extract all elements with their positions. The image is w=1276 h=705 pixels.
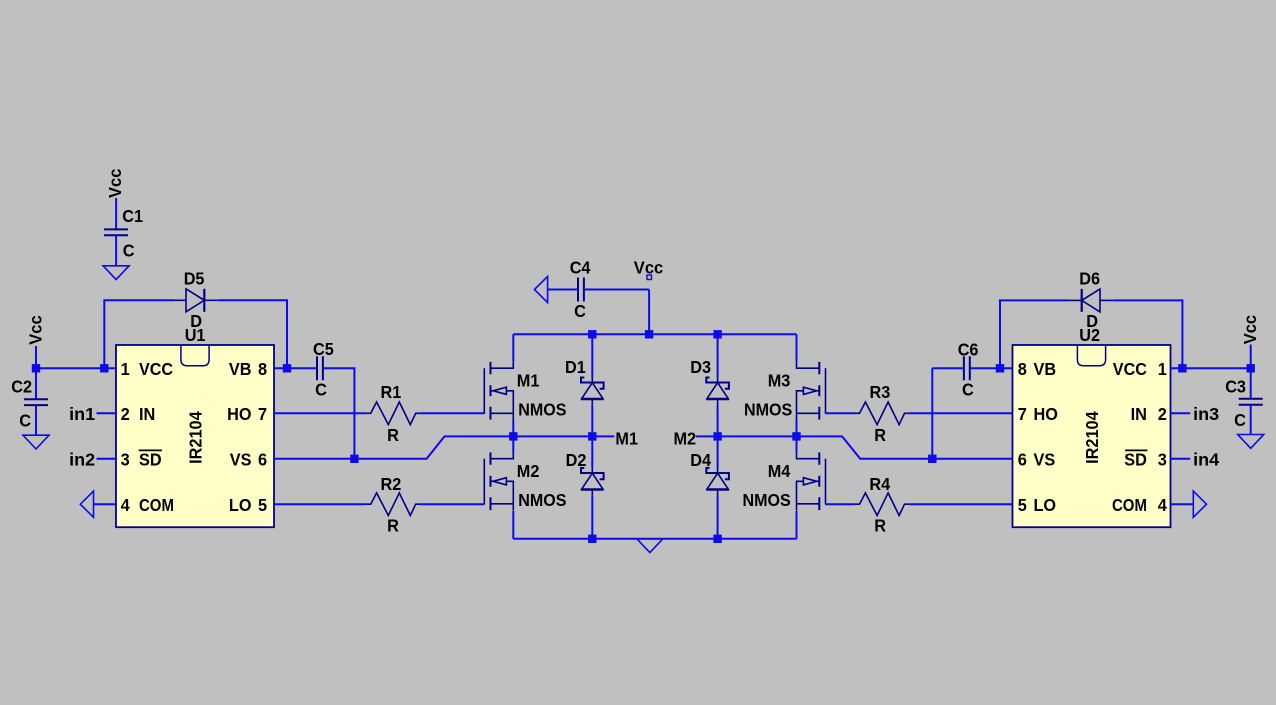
svg-text:D6: D6 <box>1079 268 1100 288</box>
svg-text:COM: COM <box>1112 495 1147 515</box>
wire D6 cathode branch <box>1000 300 1068 368</box>
svg-text:C: C <box>962 379 974 399</box>
svg-text:8: 8 <box>258 359 267 379</box>
svg-text:SD: SD <box>1124 450 1147 470</box>
transistor M2 <box>484 452 513 510</box>
port arrow COM (right) <box>1193 491 1206 517</box>
wire LO to R2 <box>274 503 366 505</box>
junction Vcc/C2 node <box>32 364 40 372</box>
svg-text:C: C <box>19 411 31 431</box>
svg-text:M3: M3 <box>768 371 791 391</box>
svg-text:R2: R2 <box>381 474 402 494</box>
diode D5 <box>173 289 218 312</box>
svg-text:C3: C3 <box>1225 377 1246 397</box>
port arrow (C4) <box>534 276 547 302</box>
svg-text:COM: COM <box>139 495 174 515</box>
svg-text:7: 7 <box>258 404 267 424</box>
wire R2 to M2 gate <box>420 503 484 505</box>
wire D1 top <box>591 334 593 377</box>
svg-text:C1: C1 <box>122 206 143 226</box>
wire M2 source <box>512 511 514 539</box>
svg-text:4: 4 <box>1158 495 1167 515</box>
svg-text:2: 2 <box>121 404 130 424</box>
wire Vcc rail to U1 pin 1 <box>36 367 116 369</box>
svg-text:3: 3 <box>121 450 130 470</box>
wire C4 to Vcc drop <box>584 289 649 291</box>
svg-text:D5: D5 <box>184 268 205 288</box>
wire C6 left <box>932 367 964 369</box>
svg-text:NMOS: NMOS <box>518 490 566 510</box>
svg-text:R: R <box>387 425 399 445</box>
ground (bridge) <box>637 539 663 553</box>
wire M3 source <box>796 420 798 436</box>
wire D4 bottom <box>717 495 719 538</box>
wire M1 drain <box>512 334 514 361</box>
svg-text:IR2104: IR2104 <box>186 411 206 464</box>
svg-text:Vcc: Vcc <box>634 257 664 277</box>
diode D4 (zener) <box>706 468 729 495</box>
wire M2 drain <box>512 436 514 452</box>
svg-text:C6: C6 <box>958 340 979 360</box>
wire C1 to ground <box>115 235 117 265</box>
junction top rail D3 <box>713 330 721 338</box>
svg-text:8: 8 <box>1018 359 1027 379</box>
wire M3 drain <box>796 334 798 361</box>
wire in1 stub <box>97 412 117 414</box>
svg-text:IN: IN <box>1131 404 1147 424</box>
svg-text:1: 1 <box>121 359 130 379</box>
wire COM stub left <box>94 503 117 505</box>
svg-text:R: R <box>387 516 399 536</box>
wire bottom rail <box>513 538 796 540</box>
svg-text:6: 6 <box>1018 450 1027 470</box>
resistor R2 <box>366 493 420 516</box>
wire U2 pin1 to Vcc <box>1171 367 1251 369</box>
svg-text:R1: R1 <box>381 382 402 402</box>
SD overline U1 <box>139 449 162 451</box>
svg-text:3: 3 <box>1158 450 1167 470</box>
svg-text:NMOS: NMOS <box>743 490 791 510</box>
svg-text:VS: VS <box>230 450 252 470</box>
svg-text:NMOS: NMOS <box>518 400 566 420</box>
svg-text:VCC: VCC <box>1113 359 1147 379</box>
svg-text:VS: VS <box>1034 450 1056 470</box>
wire mid rail right <box>696 436 1013 458</box>
wire D5 anode branch <box>104 300 173 368</box>
junction mid-rail M1 node (D2 top) <box>588 432 596 440</box>
wire C2 to ground <box>35 405 37 435</box>
wire M4 drain <box>796 436 798 452</box>
wire Vcc drop <box>648 290 650 335</box>
capacitor C6 <box>964 356 970 380</box>
svg-text:2: 2 <box>1158 404 1167 424</box>
svg-text:1: 1 <box>1158 359 1167 379</box>
svg-text:6: 6 <box>258 450 267 470</box>
wire COM stub right <box>1171 503 1194 505</box>
svg-text:IN: IN <box>139 404 155 424</box>
junction top rail Vcc <box>645 330 653 338</box>
svg-text:C: C <box>574 301 586 321</box>
svg-text:C: C <box>315 379 327 399</box>
wire D1 bottom <box>591 405 593 437</box>
svg-text:R3: R3 <box>870 382 891 402</box>
junction D6/VCC node <box>1178 364 1186 372</box>
junction VB/D6/C6 node <box>996 364 1004 372</box>
svg-text:VB: VB <box>229 359 252 379</box>
svg-text:U1: U1 <box>185 325 206 345</box>
transistor M1 <box>484 362 513 420</box>
ground (C1) <box>103 266 129 280</box>
wire M4 gate to R4 <box>825 503 855 505</box>
svg-text:M2: M2 <box>674 429 697 449</box>
junction mid-rail M2 node (D4) <box>713 432 721 440</box>
op-amp U2 IR2104 body <box>1013 345 1171 527</box>
svg-text:Vcc: Vcc <box>25 315 45 345</box>
diode D1 (zener) <box>581 378 604 405</box>
svg-text:5: 5 <box>1018 495 1027 515</box>
junction mid-rail M2 node (M3 src) <box>792 432 800 440</box>
svg-text:M4: M4 <box>768 461 791 481</box>
svg-text:NMOS: NMOS <box>744 400 792 420</box>
diode D2 (zener) <box>581 468 604 495</box>
svg-text:C2: C2 <box>11 377 32 397</box>
port arrow COM (left) <box>80 491 93 517</box>
svg-text:Vcc: Vcc <box>1240 315 1260 345</box>
junction top rail D1 <box>588 330 596 338</box>
wire VB to C5 <box>274 367 317 369</box>
svg-text:in1: in1 <box>69 404 95 424</box>
wire top rail <box>513 333 796 335</box>
svg-text:Vcc: Vcc <box>105 168 125 198</box>
wire in4 stub <box>1171 458 1191 460</box>
junction bottom rail D4 <box>713 535 721 543</box>
ground (C3) <box>1238 435 1264 449</box>
svg-text:M1: M1 <box>517 371 540 391</box>
junction Vcc/C3 node <box>1247 364 1255 372</box>
wire M3 gate to R3 <box>825 412 855 414</box>
node marker Vcc <box>647 275 652 280</box>
svg-text:U2: U2 <box>1079 325 1100 345</box>
wire D6 anode to VCC node <box>1113 300 1182 368</box>
resistor R4 <box>855 493 909 516</box>
svg-text:M1: M1 <box>615 429 638 449</box>
svg-text:4: 4 <box>121 495 130 515</box>
junction mid-rail M1 node (M1 src) <box>509 432 517 440</box>
capacitor C2 <box>24 399 48 405</box>
svg-text:C4: C4 <box>570 258 591 278</box>
svg-text:R4: R4 <box>869 474 890 494</box>
wire D4 top <box>717 436 719 468</box>
wire M1 source <box>512 420 514 436</box>
wire HO to R1 <box>274 412 366 414</box>
wire in3 stub <box>1171 412 1191 414</box>
svg-text:C: C <box>123 241 135 261</box>
capacitor C1 <box>104 229 128 235</box>
wire Vcc stub left <box>35 346 37 368</box>
wire C6 to U2 VB <box>970 367 1013 369</box>
transistor M3 <box>797 362 826 420</box>
svg-text:LO: LO <box>229 495 252 515</box>
wire D2 bottom <box>591 495 593 538</box>
wire C5 to VS <box>323 368 355 459</box>
capacitor C4 <box>578 278 584 302</box>
capacitor C5 <box>317 356 323 380</box>
svg-text:IR2104: IR2104 <box>1082 411 1102 464</box>
svg-text:LO: LO <box>1034 495 1057 515</box>
ground (C2) <box>23 435 49 449</box>
svg-text:R: R <box>874 516 886 536</box>
svg-text:VB: VB <box>1034 359 1057 379</box>
wire D2 top <box>591 436 593 468</box>
transistor M4 <box>797 452 826 510</box>
svg-text:C: C <box>1234 410 1246 430</box>
svg-text:C5: C5 <box>313 339 334 359</box>
wire R3 to U2 HO <box>909 412 1012 414</box>
svg-text:5: 5 <box>258 495 267 515</box>
svg-text:VCC: VCC <box>139 359 173 379</box>
svg-text:7: 7 <box>1018 404 1027 424</box>
wire C3 top <box>1250 368 1252 399</box>
wire R1 to M1 gate <box>420 412 484 414</box>
svg-text:in4: in4 <box>1193 450 1219 470</box>
junction D5 anode branch <box>100 364 108 372</box>
wire VS run left <box>274 436 614 458</box>
wire Vcc stub right <box>1250 345 1252 369</box>
wire C4 left to port <box>548 289 578 291</box>
capacitor C3 <box>1239 399 1263 405</box>
junction VB/D5/C5 node <box>283 364 291 372</box>
svg-text:D1: D1 <box>565 357 586 377</box>
svg-text:D4: D4 <box>690 450 711 470</box>
wire R4 to U2 LO <box>909 503 1012 505</box>
resistor R1 <box>366 402 420 425</box>
junction VS/C6 node <box>928 455 936 463</box>
junction VS/C5 node <box>350 455 358 463</box>
svg-text:SD: SD <box>139 450 162 470</box>
wire D3 top <box>717 334 719 377</box>
SD overline U2 <box>1125 449 1147 451</box>
svg-text:in3: in3 <box>1193 404 1219 424</box>
svg-text:D2: D2 <box>566 450 587 470</box>
svg-text:HO: HO <box>227 404 251 424</box>
svg-text:R: R <box>874 425 886 445</box>
wire C3 to ground <box>1250 405 1252 435</box>
wire D3 bottom <box>717 405 719 437</box>
diode D3 (zener) <box>706 378 729 405</box>
wire C6 corner to VS <box>931 368 933 459</box>
diode D6 <box>1068 289 1113 312</box>
wire Vcc to C1 <box>115 198 117 229</box>
wire M4 source <box>796 511 798 539</box>
junction bottom rail D2 <box>588 535 596 543</box>
wire in2 stub <box>97 458 117 460</box>
wire C2 top <box>35 368 37 399</box>
svg-text:D3: D3 <box>690 357 711 377</box>
svg-text:HO: HO <box>1034 404 1058 424</box>
resistor R3 <box>855 402 909 425</box>
svg-text:in2: in2 <box>69 450 95 470</box>
wire D5 cathode to VB node <box>218 300 287 368</box>
svg-text:M2: M2 <box>517 461 540 481</box>
op-amp U1 IR2104 body <box>116 345 274 527</box>
